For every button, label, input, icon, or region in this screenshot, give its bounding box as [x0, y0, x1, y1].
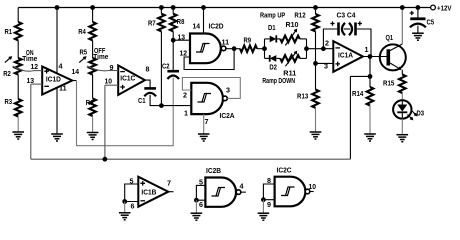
wire IC1D pin13 drop to feedback line	[30, 84, 32, 159]
wire C5 top lead	[417, 8, 419, 18]
svg-text:R8: R8	[177, 17, 185, 26]
wire R1-R2 lead	[17, 40, 19, 58]
svg-text:9: 9	[110, 63, 114, 72]
svg-text:13: 13	[178, 33, 186, 42]
wire main feedback line	[31, 158, 351, 160]
node IC2B inputs junction	[194, 198, 199, 203]
svg-text:IC1A: IC1A	[338, 51, 353, 60]
wire node to IC2D pin13 stub	[173, 39, 190, 41]
svg-text:C3 C4: C3 C4	[337, 10, 356, 19]
capacitor C4 curved plate	[349, 23, 352, 35]
svg-text:13: 13	[27, 76, 35, 85]
IC2C output bubble	[305, 189, 310, 194]
wire +12V top supply rail	[18, 7, 430, 9]
wire R8 top lead	[172, 8, 174, 14]
op-amp IC1B	[138, 177, 168, 207]
diode D2	[270, 55, 277, 62]
wire ramp left branch verticals	[264, 39, 266, 59]
svg-text:D2: D2	[269, 63, 277, 72]
svg-text:R15: R15	[383, 79, 394, 88]
op-amp IC1A	[333, 41, 363, 72]
wire R1 top lead	[17, 8, 19, 23]
wire IC2A pin7 ground drop	[203, 114, 205, 134]
capacitor C1 bottom plate	[144, 93, 156, 97]
wire R2 wiper to pin12	[13, 66, 34, 71]
nand gate IC2C	[275, 177, 306, 207]
svg-text:10: 10	[309, 182, 317, 191]
wire IC1D supply pin4/11 line	[56, 8, 58, 135]
resistor R4	[89, 22, 96, 40]
svg-text:C1: C1	[138, 96, 146, 105]
svg-text:R13: R13	[297, 92, 308, 101]
svg-text:R10: R10	[286, 20, 299, 29]
wire pin1 node to IC2A pin1	[161, 105, 191, 107]
node rail-R12	[313, 5, 318, 10]
svg-text:11: 11	[222, 38, 230, 47]
wire IC2A pin2 loop from output	[182, 78, 240, 99]
nand gate IC2A	[191, 83, 223, 114]
svg-text:C5: C5	[427, 18, 435, 27]
svg-text:R3: R3	[5, 97, 13, 106]
wire IC2C input bracket	[263, 184, 274, 200]
IC2D output bubble	[221, 46, 226, 51]
ground R6	[87, 132, 99, 134]
wire ramp node to IC1A pin2	[307, 48, 334, 50]
wire R10 right lead	[300, 38, 307, 40]
wire R14 ground lead	[369, 106, 371, 135]
svg-text:10: 10	[105, 77, 113, 86]
IC1D - mark	[44, 85, 49, 87]
node IC1A output/C4	[368, 54, 373, 59]
wire feedback stub	[350, 75, 370, 77]
svg-text:IC1D: IC1D	[46, 74, 61, 83]
svg-text:12: 12	[180, 49, 188, 58]
svg-text:IC2B: IC2B	[206, 166, 221, 175]
wire IC1C pin10 input stub	[105, 84, 118, 86]
svg-text:9: 9	[267, 200, 271, 209]
ground IC2B	[191, 212, 203, 214]
wire D2 lead	[265, 57, 270, 59]
wire Q1 collector riser to rail	[401, 8, 403, 45]
nand gate IC2D	[190, 34, 221, 64]
svg-text:R14: R14	[352, 89, 363, 98]
wire C4 to output node	[357, 29, 371, 57]
ground IC1B	[119, 212, 131, 214]
ground R13	[310, 131, 322, 133]
node R12/R13/pin3 junction	[313, 61, 318, 66]
IC2B hysteresis mark	[212, 188, 226, 197]
wire IC2B ground lead	[195, 200, 197, 213]
wire IC1C pin10 drop	[104, 85, 106, 159]
wire IC1D pin13 input stub	[31, 83, 42, 85]
svg-text:IC2A: IC2A	[220, 111, 235, 120]
pot R10 arrow	[285, 30, 296, 46]
resistor R7	[158, 14, 165, 32]
wire IC2C pin10 output stub	[310, 191, 314, 193]
wire R12 top lead	[315, 8, 317, 15]
svg-text:14: 14	[193, 22, 201, 31]
node pin2/C3 junction	[321, 46, 326, 51]
ground R14	[364, 133, 376, 135]
node ramp network left	[262, 46, 267, 51]
ground C5	[412, 32, 424, 34]
potentiometer R2	[15, 58, 22, 75]
wire IC1D pin12 input stub	[34, 70, 43, 72]
wire D3 ground lead	[401, 119, 403, 135]
IC1B - mark	[140, 200, 145, 202]
wire IC1C pin8 output	[145, 80, 150, 87]
LED D3 light arrows	[408, 115, 413, 120]
wire C2 top lead	[172, 40, 174, 70]
svg-text:IC1C: IC1C	[120, 74, 135, 83]
svg-text:4: 4	[240, 182, 244, 191]
wire D1-R10 lead	[276, 38, 280, 40]
svg-text:12: 12	[31, 62, 39, 71]
svg-text:R4: R4	[78, 27, 86, 36]
wire R5-R6 lead	[92, 75, 94, 99]
wire IC1B pin7 output stub	[168, 191, 173, 193]
wire C3 riser	[323, 29, 337, 49]
wire R8 bottom lead	[172, 31, 174, 40]
IC1C + mark	[120, 85, 125, 90]
wire R5 wiper to pin9	[87, 66, 109, 71]
svg-text:R2: R2	[3, 69, 11, 78]
svg-text:R12: R12	[294, 10, 305, 19]
svg-text:Q1: Q1	[386, 33, 394, 42]
svg-text:IC2D: IC2D	[209, 22, 224, 31]
wire R7 top lead	[160, 8, 162, 14]
node feedback/pin10	[103, 157, 108, 162]
wire R6 ground lead	[92, 116, 94, 133]
wire IC2D pin14 supply drop	[203, 8, 205, 34]
svg-text:2: 2	[183, 91, 187, 100]
svg-text:1: 1	[365, 45, 369, 54]
wire R4 top lead	[92, 8, 94, 23]
wire output node drop	[369, 57, 371, 77]
resistor R6	[89, 99, 96, 116]
IC1A + mark	[335, 62, 340, 67]
svg-text:14: 14	[72, 67, 80, 76]
wire R15 to D3	[401, 93, 403, 100]
svg-text:R7: R7	[148, 19, 156, 28]
wire R4-R5 lead	[92, 40, 94, 58]
LED D3 cathode lead	[401, 112, 403, 118]
wire C1 bottom lead to pin1 node	[150, 95, 161, 106]
wire IC2C ground lead	[262, 200, 264, 214]
wire emitter to R15	[401, 70, 403, 75]
wire IC1B input bracket	[125, 184, 139, 202]
IC2A output bubble	[223, 96, 228, 101]
svg-text:IC1B: IC1B	[141, 188, 156, 197]
potentiometer R5	[89, 58, 96, 75]
wire feedback right riser	[349, 76, 351, 159]
svg-text:3: 3	[324, 61, 328, 70]
svg-text:7: 7	[167, 179, 171, 188]
node rail-C5	[416, 5, 421, 10]
capacitor C1 top plate	[144, 87, 156, 90]
resistor R3	[15, 99, 22, 116]
ground IC2C	[258, 212, 270, 214]
capacitor C2 top plate	[167, 70, 179, 73]
svg-text:2: 2	[325, 38, 329, 47]
wire IC1D pin14 output stub	[72, 80, 76, 82]
IC2D hysteresis mark	[196, 44, 210, 53]
wire R7 long bottom lead	[160, 31, 162, 105]
svg-text:R6: R6	[86, 98, 94, 107]
svg-text:6: 6	[199, 200, 203, 209]
wire IC1B ground lead	[124, 202, 126, 213]
IC1C - mark	[120, 71, 125, 73]
IC2A hysteresis mark	[198, 94, 212, 103]
C5 + mark	[410, 11, 414, 15]
svg-text:4: 4	[59, 62, 63, 71]
wire IC2B input bracket	[196, 185, 205, 200]
resistor R15	[399, 75, 406, 94]
capacitor C4 plus plate	[354, 22, 357, 35]
node rail-R7	[159, 5, 164, 10]
wire IC1A output to Q1 base	[363, 56, 388, 58]
resistor R9	[240, 45, 257, 52]
node ramp network right	[304, 46, 309, 51]
capacitor C3 plus plate	[337, 22, 340, 35]
LED D3 triangle	[397, 105, 407, 112]
svg-text:D1: D1	[268, 23, 276, 32]
svg-text:6: 6	[131, 202, 135, 211]
wire R14 top lead	[369, 76, 371, 87]
nand gate IC2B	[205, 178, 236, 207]
svg-text:3: 3	[226, 86, 230, 95]
Q1 emitter stroke	[388, 62, 400, 69]
svg-text:R5: R5	[80, 48, 88, 57]
wire C5 ground lead	[417, 26, 419, 34]
IC2C hysteresis mark	[281, 187, 295, 196]
node IC1B inputs junction	[122, 199, 127, 204]
resistor R12	[312, 14, 319, 31]
wire D2-R11 lead	[276, 57, 280, 59]
LED D3 anode lead	[401, 100, 403, 104]
ground R3	[12, 131, 24, 133]
node output/R14/feedback	[368, 74, 373, 79]
potentiometer R10	[280, 36, 300, 43]
wire IC2D pin11 output	[226, 48, 240, 50]
svg-text:+12V: +12V	[437, 3, 452, 12]
LED D3 cathode bar	[397, 111, 407, 113]
C4 + mark	[358, 21, 362, 25]
node rail-R4	[90, 5, 95, 10]
pot R2 arrow	[5, 57, 12, 63]
wire IC1C pin9 input stub	[109, 70, 119, 72]
wire R11 right lead	[300, 57, 307, 59]
Q1 base bar	[386, 49, 390, 65]
node rail-R8	[171, 5, 176, 10]
wire R3 ground lead	[17, 117, 19, 133]
capacitor C2 bottom plate	[167, 76, 179, 80]
wire R9 to ramp network	[257, 48, 265, 50]
node IC2D output junction	[232, 46, 237, 51]
IC2B output bubble	[236, 190, 241, 195]
svg-text:Time: Time	[93, 52, 108, 61]
svg-text:D3: D3	[417, 109, 425, 118]
diode D1	[270, 36, 277, 43]
pot R5 arrow	[79, 57, 86, 63]
IC1A - mark	[335, 47, 340, 49]
wire R12 bottom lead	[315, 31, 317, 63]
capacitor C5 bottom plate	[410, 24, 426, 28]
wire R13 top lead	[315, 63, 317, 89]
resistor R8	[170, 14, 177, 32]
wire IC2D pin12 stub and loop from output	[184, 49, 234, 70]
LED D3 body	[393, 100, 411, 118]
capacitor C3 curved plate	[342, 23, 345, 35]
IC1D + mark	[44, 69, 49, 74]
resistor R13	[312, 90, 319, 108]
IC1B + mark	[140, 181, 145, 186]
wire ramp right branch verticals	[306, 39, 308, 59]
ground IC2A pin7	[198, 133, 210, 135]
svg-text:R1: R1	[5, 27, 13, 36]
resistor R1	[15, 22, 22, 40]
svg-text:Ramp UP: Ramp UP	[260, 10, 285, 19]
node rail-collector	[400, 5, 405, 10]
svg-text:R9: R9	[244, 36, 252, 45]
wire IC2B pin4 output stub	[241, 191, 246, 193]
node C1/R7/pin1 junction	[159, 103, 164, 108]
wire IC1D output U-path to C2 bottom	[77, 78, 174, 146]
node rail-IC2D pin14	[201, 5, 206, 10]
svg-text:1: 1	[184, 109, 188, 118]
transistor Q1 body	[380, 44, 406, 70]
svg-text:8: 8	[146, 65, 150, 74]
wire pin3 stub	[316, 62, 334, 64]
ground D3	[397, 134, 409, 136]
C3 + mark	[330, 21, 334, 25]
op-amp IC1C	[118, 65, 145, 95]
svg-text:IC2C: IC2C	[277, 166, 292, 175]
potentiometer R11	[280, 55, 300, 62]
wire R13 ground lead	[315, 108, 317, 132]
Q1 collector stroke	[388, 44, 402, 52]
node R8/pin13/C2 junction	[171, 38, 176, 43]
svg-text:C2: C2	[162, 62, 170, 71]
pot R11 arrow	[285, 52, 296, 67]
svg-text:7: 7	[205, 117, 209, 126]
capacitor C5 top plate	[410, 17, 425, 20]
ground IC1D pin11	[51, 133, 63, 135]
wire R2-R3 lead	[17, 75, 19, 100]
svg-text:Ramp DOWN: Ramp DOWN	[262, 76, 295, 85]
node IC2C inputs junction	[261, 197, 266, 202]
wire C3-C4 link	[344, 28, 350, 30]
node rail-IC1D supply	[55, 5, 60, 10]
wire D1 lead	[265, 38, 270, 40]
+12V terminal	[431, 5, 436, 10]
resistor R14	[367, 87, 374, 106]
op-amp IC1D	[42, 67, 72, 95]
